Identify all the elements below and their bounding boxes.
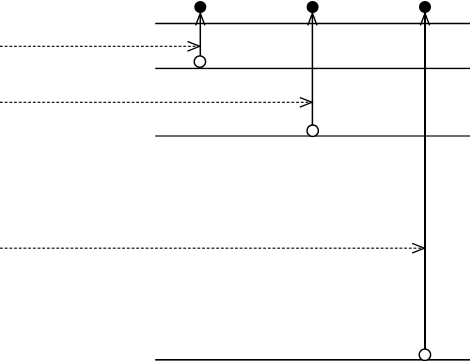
wire: dashed signal arrow 3	[0, 247, 423, 249]
wire: horizontal level line 1	[155, 23, 470, 25]
wire: dashed signal arrow 2	[0, 101, 311, 103]
node: lifeline 1 top dot (filled)	[194, 1, 206, 13]
arrowhead: lifeline 1 open up-arrow	[196, 13, 205, 25]
node: lifeline 3 top dot (filled)	[419, 1, 431, 13]
wire: lifeline 3 vertical	[424, 7, 426, 349]
node: lifeline 3 end circle (open)	[419, 349, 430, 360]
wire: lifeline 2 vertical	[311, 7, 313, 125]
arrowhead: lifeline 2 open up-arrow	[308, 13, 317, 25]
node: lifeline 2 top dot (filled)	[307, 1, 319, 13]
arrowhead: lifeline 3 open up-arrow	[420, 13, 429, 25]
wire: lifeline 1 vertical	[199, 7, 201, 56]
wire: horizontal base line (bottom)	[155, 359, 470, 361]
arrowhead: dashed arrow 3 open head	[412, 243, 424, 253]
arrowhead: dashed arrow 2 open head	[300, 98, 312, 108]
wire: horizontal level line 3 (grey)	[155, 135, 470, 137]
arrowhead: dashed arrow 1 open head	[188, 42, 200, 52]
wire: dashed signal arrow 1	[0, 45, 199, 47]
wire: horizontal level line 2	[155, 67, 470, 69]
node: lifeline 2 end circle (open)	[307, 125, 318, 136]
node: lifeline 1 end circle (open)	[194, 56, 205, 67]
